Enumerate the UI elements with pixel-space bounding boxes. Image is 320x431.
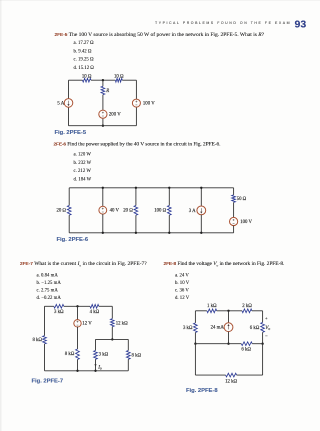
svg-text:8 kΩ: 8 kΩ — [32, 338, 42, 343]
resistor 10 ohm left (top) — [83, 78, 92, 82]
wire branch 100ohm lower — [168, 215, 170, 233]
svg-text:200 V: 200 V — [109, 113, 121, 118]
wire top edge segments — [45, 305, 54, 307]
resistor 3 kohm left edge — [194, 323, 198, 333]
resistor 8 kohm left edge — [43, 336, 47, 344]
svg-text:8 kΩ: 8 kΩ — [132, 353, 142, 358]
node dot Io junction — [94, 370, 96, 372]
wire lower-left edge — [194, 344, 196, 375]
resistor R — [101, 86, 105, 94]
wire inner right branch upper — [127, 339, 129, 350]
node junction top — [76, 305, 78, 307]
wire bottom edge — [69, 232, 233, 234]
wire right edge lower to inner box — [111, 327, 113, 340]
resistor 4 kohm top — [90, 304, 99, 308]
options 2FE-5 — [74, 39, 94, 72]
wire middle branch lower — [102, 95, 104, 110]
svg-text:12 kΩ: 12 kΩ — [225, 380, 237, 385]
wire right edge to mid wire — [262, 332, 264, 343]
resistor 1 kohm top — [207, 309, 217, 313]
resistor 6 kohm right edge — [261, 322, 265, 332]
node dot middle-mid — [227, 343, 229, 345]
caption Fig. 2PFE-5 — [55, 129, 87, 136]
node dots branch 20ohm — [135, 187, 137, 189]
svg-text:1 kΩ: 1 kΩ — [207, 304, 217, 309]
wire left edge — [68, 80, 70, 98]
wire top right segment — [252, 310, 263, 312]
scan edge left — [0, 0, 2, 431]
wire left edge lower — [68, 215, 70, 233]
svg-text:4 kΩ: 4 kΩ — [90, 310, 100, 315]
resistor 2 kohm top — [242, 309, 252, 313]
wire branch 3A upper — [200, 188, 202, 206]
resistor 12 kohm right edge — [110, 319, 114, 327]
wire top middle segment — [91, 79, 115, 81]
svg-text:5 A: 5 A — [57, 101, 64, 106]
svg-text:3 A: 3 A — [189, 209, 196, 214]
wire branch 20ohm upper — [135, 188, 137, 206]
problem 2FE-5 — [55, 32, 265, 38]
svg-text:2 kΩ: 2 kΩ — [242, 304, 252, 309]
wire mid right segment — [252, 343, 262, 345]
wire right edge middle — [233, 202, 235, 217]
wire right edge upper — [111, 306, 113, 318]
wire right edge lower — [233, 226, 235, 233]
wire middle branch lower — [228, 332, 230, 344]
svg-text:10 Ω: 10 Ω — [82, 74, 92, 79]
options 2FE-6 — [74, 151, 92, 184]
page number 93 — [295, 19, 307, 31]
node dots branch 100ohm — [168, 187, 170, 189]
wire branch 40V upper — [102, 188, 104, 207]
svg-text:3 kΩ: 3 kΩ — [183, 326, 193, 331]
wire top edge segments — [195, 310, 207, 312]
svg-text:12 kΩ: 12 kΩ — [116, 321, 128, 326]
node junction bottom-middle — [102, 125, 104, 127]
scan edge top — [0, 0, 320, 1]
resistor 6 kohm mid wire — [241, 342, 252, 346]
svg-text:3 kΩ: 3 kΩ — [99, 352, 109, 357]
svg-text:100 Ω: 100 Ω — [154, 209, 166, 214]
voltage source 100 V (right) — [230, 217, 238, 225]
svg-text:Vo: Vo — [265, 325, 270, 331]
current arrow Io — [94, 364, 96, 366]
wire right edge upper — [233, 188, 235, 195]
svg-text:3 kΩ: 3 kΩ — [54, 310, 64, 315]
svg-text:40 V: 40 V — [110, 209, 120, 214]
wire left edge lower — [44, 344, 46, 371]
resistor 10 ohm right (top) — [115, 78, 122, 82]
wire right edge upper — [262, 311, 264, 323]
wire branch 40V lower — [102, 214, 104, 233]
wire left edge upper — [44, 306, 46, 335]
options 2FE-8 — [175, 272, 189, 302]
svg-text:R: R — [105, 89, 109, 94]
wire right edge — [135, 80, 137, 99]
wire middle branch upper — [77, 306, 79, 320]
page header — [155, 22, 291, 26]
resistor 8 kohm inner — [126, 351, 130, 360]
svg-text:50 Ω: 50 Ω — [237, 197, 247, 202]
wire bottom edge — [69, 125, 137, 127]
svg-text:100 V: 100 V — [143, 102, 155, 107]
wire middle branch upper — [102, 80, 104, 86]
wire top middle — [217, 310, 242, 312]
current source 24 mA — [224, 323, 233, 332]
resistor 20 ohm middle — [134, 206, 138, 216]
wire inner box top — [96, 338, 129, 340]
problem 2FE-7 — [20, 261, 147, 268]
svg-text:6 kΩ: 6 kΩ — [250, 326, 260, 331]
node junction top-middle — [102, 79, 104, 81]
options 2FE-7 — [37, 272, 61, 302]
caption Fig. 2PFE-6 — [57, 236, 89, 243]
svg-text:20 Ω: 20 Ω — [56, 209, 66, 214]
resistor 8 kohm middle branch — [76, 349, 80, 360]
node dot middle-bottom — [76, 370, 78, 372]
resistor 20 ohm left edge — [67, 206, 71, 216]
resistor 3 kohm top — [54, 304, 64, 308]
wire left edge upper — [68, 188, 70, 206]
caption Fig. 2PFE-8 — [186, 387, 218, 394]
wire top-right segment — [99, 305, 113, 307]
wire top-right segment — [122, 79, 136, 81]
node junction top — [227, 310, 229, 312]
node junction inner top — [111, 338, 113, 340]
svg-text:24 mA: 24 mA — [211, 326, 225, 331]
svg-text:12 V: 12 V — [82, 322, 92, 327]
wire inner left branch lower with Io arrow — [95, 359, 97, 371]
wire top-left segment (corner to resistor) — [69, 79, 83, 81]
wire left edge upper — [194, 311, 196, 323]
resistor 50 ohm right edge — [232, 195, 236, 203]
svg-text:Io: Io — [97, 364, 102, 370]
wire inner right branch lower — [127, 359, 129, 371]
wire inner left branch upper — [95, 339, 97, 350]
resistor 12 kohm bottom — [226, 373, 237, 377]
svg-text:100 V: 100 V — [240, 220, 252, 225]
voltage source 40 V — [99, 206, 107, 214]
svg-text:−: − — [265, 334, 268, 339]
resistor 3 kohm inner — [94, 351, 98, 360]
wire branch 3A lower — [200, 215, 202, 233]
wire mid left segment — [195, 343, 241, 345]
wire branch 100ohm upper — [168, 188, 170, 206]
wire middle branch lower — [77, 360, 79, 371]
wire top between resistors — [64, 305, 90, 307]
wire branch 20ohm lower — [135, 215, 137, 233]
wire bottom edge right — [237, 374, 263, 376]
current source 3 A — [197, 206, 206, 215]
resistor 100 ohm — [167, 206, 171, 216]
wire bottom edge left — [195, 374, 225, 376]
caption Fig. 2PFE-7 — [32, 378, 64, 385]
wire lower-right edge — [262, 344, 264, 375]
problem 2FE-8 — [164, 261, 285, 268]
wire top edge — [69, 187, 233, 189]
wire middle branch mid — [77, 327, 79, 349]
node dots branch 3A — [200, 187, 202, 189]
node dot right-mid — [261, 343, 263, 345]
voltage source 100 V — [132, 99, 140, 107]
node dot left-mid — [194, 343, 196, 345]
wire bottom edge — [45, 370, 129, 372]
svg-text:10 Ω: 10 Ω — [114, 74, 124, 79]
voltage source 200 V — [99, 110, 107, 118]
node dots branch 40V — [102, 187, 104, 189]
svg-text:20 Ω: 20 Ω — [123, 209, 133, 214]
svg-text:8 kΩ: 8 kΩ — [65, 352, 75, 357]
svg-text:6 kΩ: 6 kΩ — [241, 348, 251, 353]
current source 5 A — [64, 99, 73, 108]
voltage source 12 V — [74, 320, 81, 327]
wire middle branch upper — [228, 311, 230, 323]
wire left edge to mid wire — [194, 333, 196, 344]
problem 2FE-6 — [54, 141, 221, 147]
svg-text:+: + — [265, 316, 268, 321]
